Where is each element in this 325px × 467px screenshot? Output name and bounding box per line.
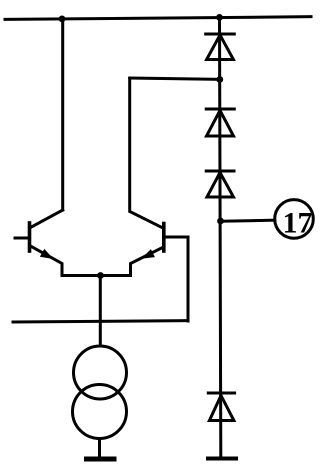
wire from Q2 collector corner to diode chain (130, 78, 220, 79)
transistor Q1 emitter lead (31, 246, 63, 276)
wire emitter tail to current source (99, 276, 102, 347)
node junction dot diode tap (216, 76, 223, 83)
svg-text:17: 17 (283, 207, 313, 240)
terminal circle 17 (275, 200, 314, 239)
current source I1 circle upper (74, 346, 127, 399)
node junction dot left rail (59, 16, 66, 23)
wire to terminal 17 (221, 220, 275, 221)
wire top supply rail (5, 17, 311, 20)
wire bottom feedback rail (13, 321, 188, 322)
diode D4 cathode bar (208, 392, 234, 395)
transistor Q2 emitter lead (131, 247, 164, 276)
wire diode chain vertical (220, 17, 221, 458)
transistor Q1 collector lead (31, 210, 63, 228)
diode D1 cathode bar (206, 33, 235, 36)
wire Q2 base down to feedback rail (187, 237, 190, 321)
transistor Q1 base stub (15, 237, 29, 240)
diode D2 cathode bar (206, 108, 234, 111)
wire current source to ground (98, 439, 101, 458)
transistor Q2 collector lead (130, 79, 163, 229)
diode D1 (207, 35, 234, 60)
transistor Q1 base bar (28, 223, 32, 251)
wire common emitter horizontal (62, 274, 131, 277)
transistor Q2 base bar (162, 224, 166, 252)
ground (87, 457, 115, 462)
transistor Q2 base lead (165, 236, 189, 239)
node junction dot output tap (217, 218, 224, 225)
wire left vertical from top rail to Q1 collector (61, 19, 64, 210)
current source I1 circle lower (73, 385, 127, 439)
transistor Q2 emitter arrow (141, 249, 155, 259)
transistor Q1 emitter arrow (40, 249, 54, 259)
terminal bar bottom of diode chain (208, 457, 236, 461)
diode D4 (209, 396, 234, 421)
node junction dot right rail (216, 14, 223, 21)
diode D2 (207, 111, 234, 137)
diode D3 cathode bar (206, 170, 234, 173)
node emitter junction dot (97, 272, 104, 279)
diode D3 (207, 173, 234, 198)
